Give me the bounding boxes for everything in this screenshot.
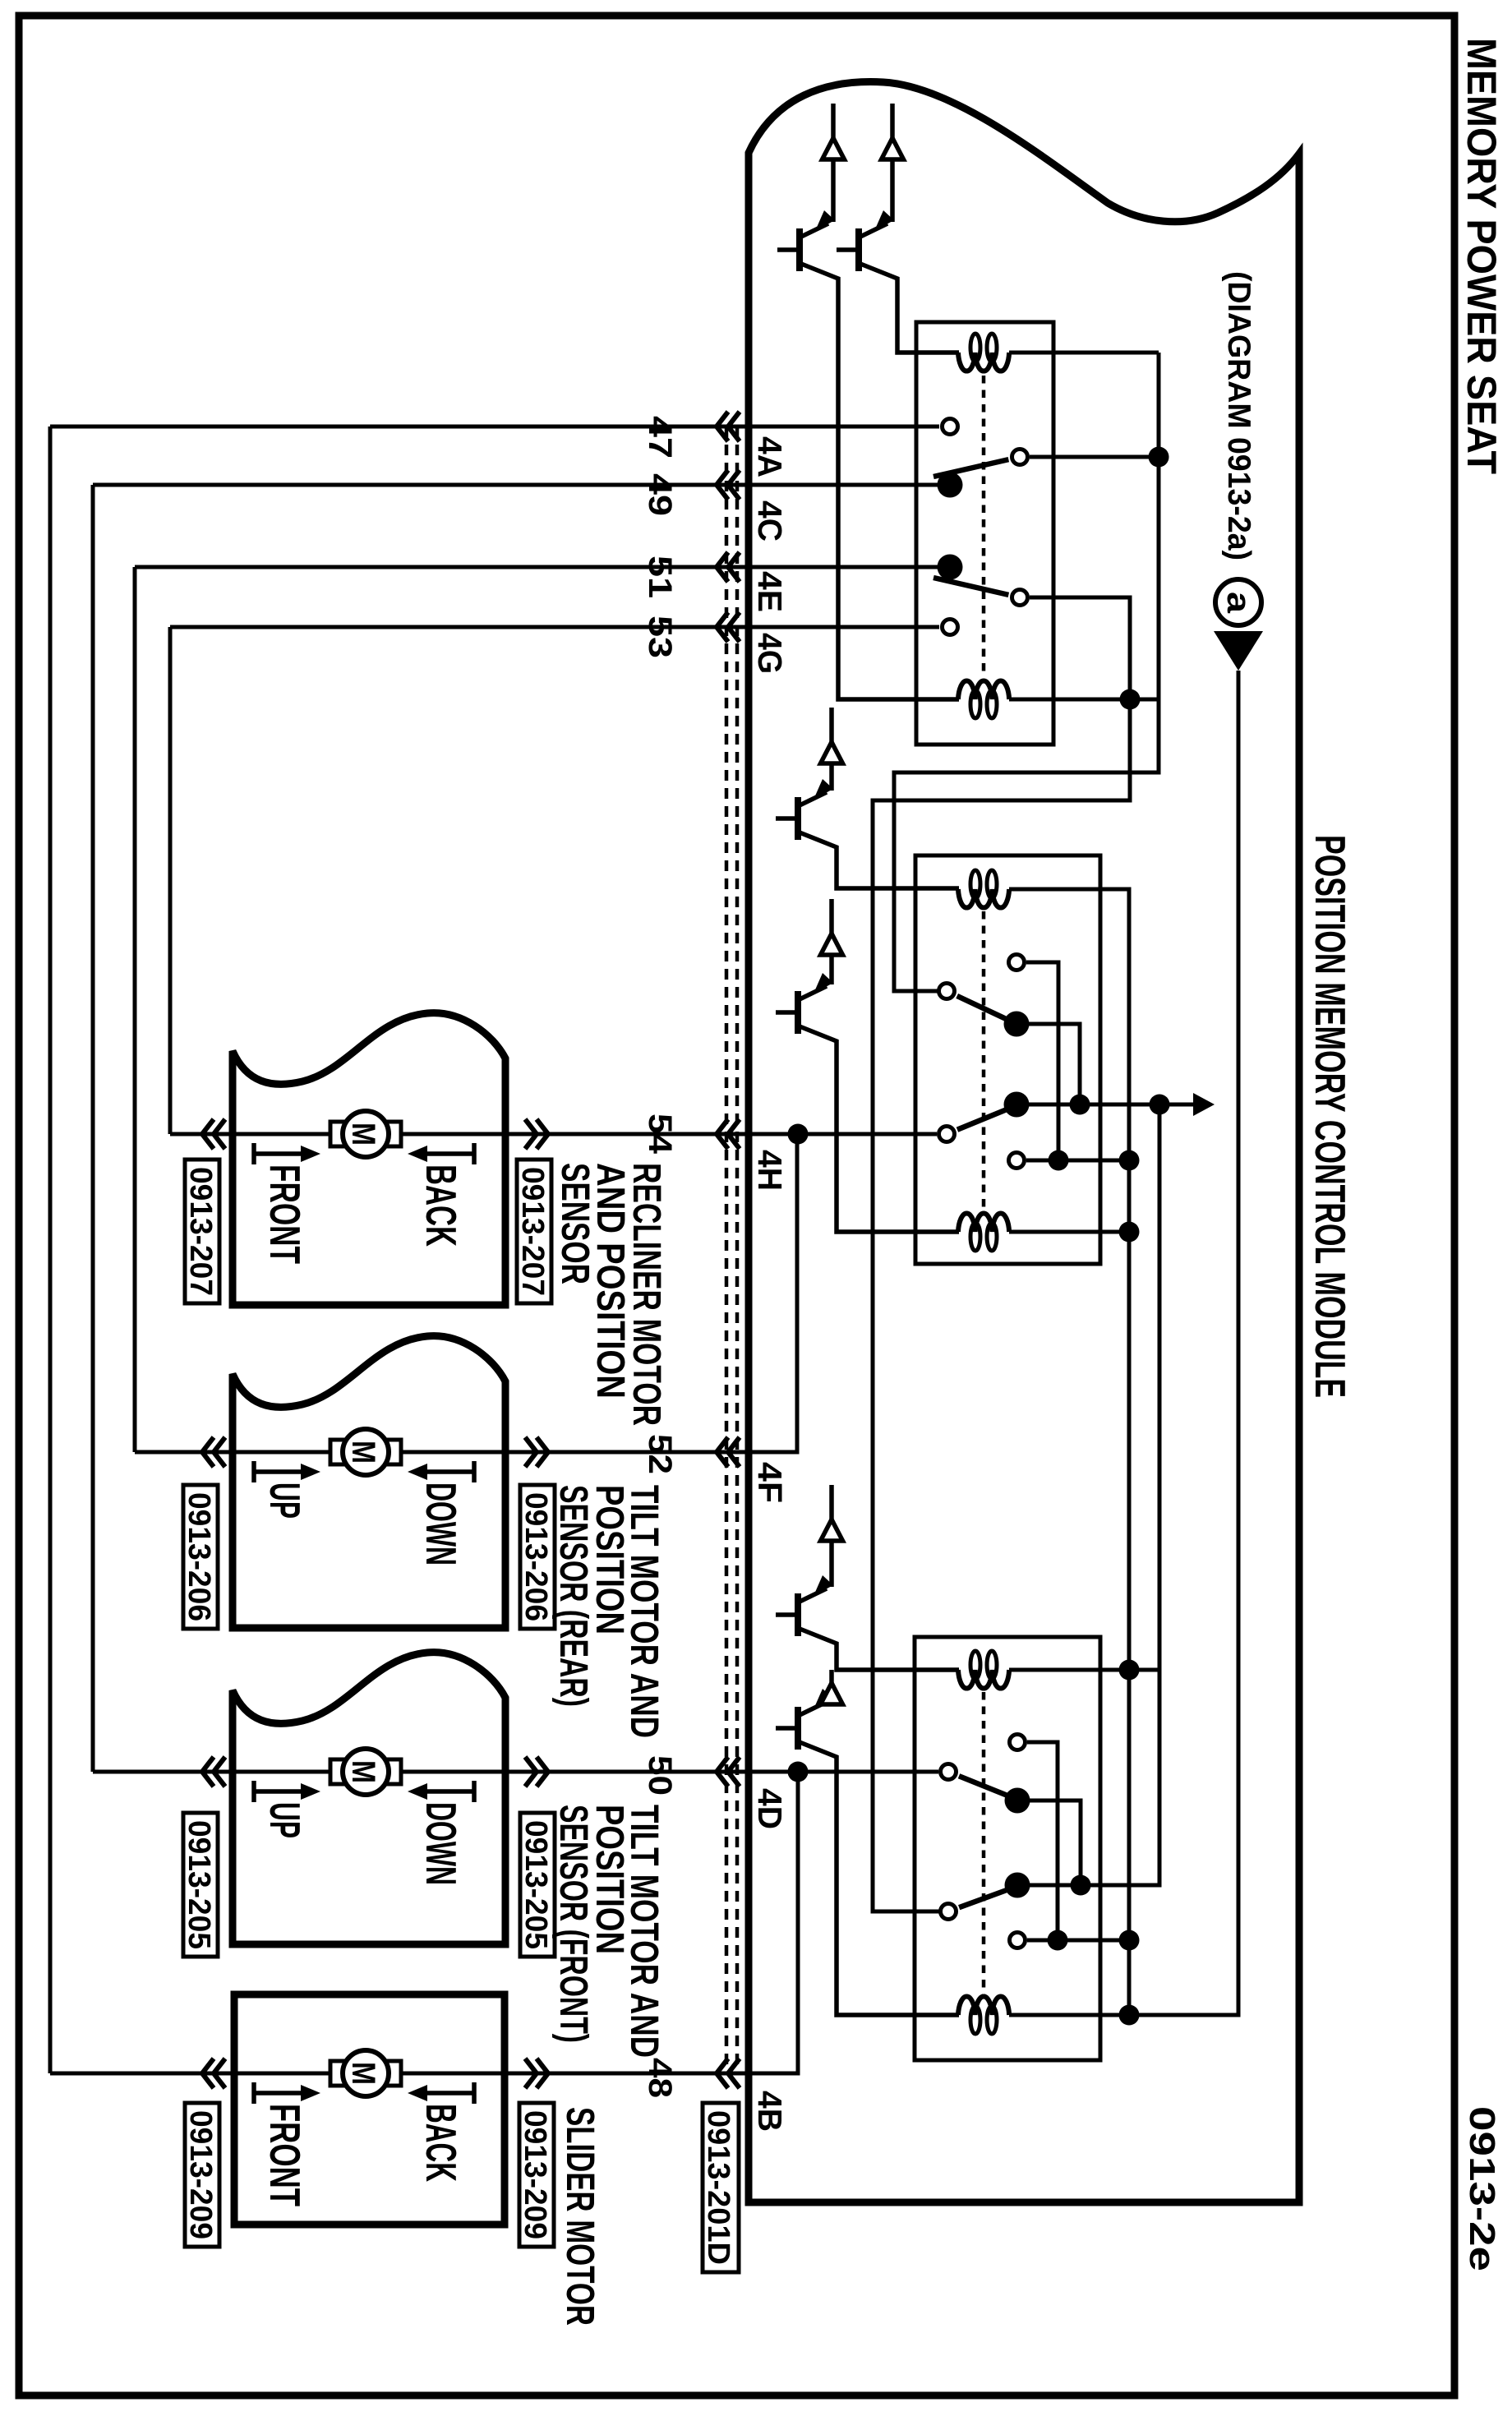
inline connector chevron wire 47 at module <box>717 412 740 441</box>
wire K3 NC1 down to node row <box>1027 1800 1081 1885</box>
relay K1 upper coil L1a <box>958 353 1009 371</box>
connector bus dashed line 2 <box>735 426 740 2073</box>
wire K2/K3 node vertical <box>1029 1104 1159 1885</box>
wire 51 row <box>135 565 939 569</box>
svg-text:4C: 4C <box>751 500 789 542</box>
wire 53 row <box>170 625 939 629</box>
svg-text:UP: UP <box>260 1802 308 1838</box>
svg-text:4F: 4F <box>751 1462 789 1503</box>
svg-text:0913-2e: 0913-2e <box>1462 2106 1502 2271</box>
motor M3 tilt-front box (wavy) <box>233 1653 505 1944</box>
svg-text:M: M <box>345 1441 381 1464</box>
junction dot wire 50 / wire 48 <box>788 1762 809 1782</box>
wire 47 row <box>50 425 939 429</box>
wire 49 row <box>93 483 939 487</box>
transistor Q6 (drives relay K3 lower coil) <box>776 1726 795 1731</box>
junction dot NO2 row / long vertical <box>1119 1150 1140 1171</box>
svg-text:49: 49 <box>642 473 678 516</box>
relay K2 lower coil L2b <box>958 1213 1009 1232</box>
relay K3 contact NO1 (open) <box>1010 1735 1026 1750</box>
svg-text:0913-209: 0913-209 <box>518 2110 552 2239</box>
wire K3 NO2 row <box>1027 1939 1129 1943</box>
svg-text:SLIDER MOTOR: SLIDER MOTOR <box>558 2107 602 2326</box>
wire K3 NO1 down to NO2 row <box>1027 1742 1058 1940</box>
relay K1 pole 49 (filled) <box>938 473 963 498</box>
continuation circle a <box>1215 579 1261 625</box>
wire relay K1 output A to node <box>1030 455 1159 459</box>
svg-text:0913-205: 0913-205 <box>519 1820 553 1949</box>
junction dot K3 NO2 / bus <box>1119 1930 1140 1951</box>
transistor Q5 (drives relay K3 upper coil) <box>776 1612 795 1617</box>
connector bus dashed line 1 <box>725 426 729 2073</box>
relay K3 upper coil right lead <box>1009 1668 1159 1672</box>
wire 51 to tilt rear motor (vertical) <box>133 567 137 1452</box>
svg-text:0913-207: 0913-207 <box>515 1167 550 1296</box>
svg-text:UP: UP <box>260 1482 308 1519</box>
svg-text:4B: 4B <box>751 2091 789 2132</box>
svg-text:47: 47 <box>642 416 678 459</box>
wire 48 row (slider motor to module pin 4B) <box>50 1772 798 2073</box>
sensor tag 0913-205 right <box>520 1813 555 1957</box>
junction dot arrow row / vertical to K3 node <box>1150 1095 1170 1115</box>
relay K3 box <box>915 1637 1100 2060</box>
svg-text:MEMORY POWER SEAT: MEMORY POWER SEAT <box>1459 38 1505 474</box>
svg-text:M: M <box>345 2062 381 2085</box>
relay K2 contact NO2 (open) <box>1009 1153 1025 1169</box>
relay K2 pole B (open) <box>939 1127 955 1142</box>
svg-text:53: 53 <box>642 616 678 658</box>
svg-text:50: 50 <box>642 1755 678 1796</box>
wire K2 node row with arrow <box>1029 1103 1193 1107</box>
svg-text:4D: 4D <box>751 1788 789 1829</box>
module POSITION MEMORY CONTROL MODULE outline (wavy partial box) <box>749 82 1299 2202</box>
motor M1 direction arrows FRONT/BACK <box>251 1143 256 1164</box>
continuation solid triangle <box>1214 631 1263 671</box>
wire NO2 row <box>1026 1159 1129 1163</box>
svg-text:0913-209: 0913-209 <box>183 2110 218 2239</box>
junction dot wire 54 / wire 52 <box>788 1124 809 1145</box>
sensor tag 0913-205 left <box>183 1813 218 1957</box>
junction dot K3 upper coil / bus <box>1119 1660 1140 1681</box>
relay K1 contact 47 (open) <box>943 419 958 435</box>
relay K1 lower coil right lead <box>1009 698 1159 702</box>
wire K1 coil feed vertical then left to relay K2 pole A <box>894 353 1159 991</box>
motor M3 chevron right <box>525 1757 548 1787</box>
svg-text:0913-205: 0913-205 <box>182 1820 216 1949</box>
junction dot K3 NC1 / node row <box>1071 1875 1091 1896</box>
sensor tag 0913-209 right <box>519 2103 554 2247</box>
relay K3 mechanical link (dashed) <box>982 1692 986 1995</box>
relay K3 lever A <box>959 1776 1016 1799</box>
svg-text:52: 52 <box>642 1434 678 1474</box>
svg-text:SENSOR (REAR): SENSOR (REAR) <box>551 1485 595 1707</box>
motor M4 slider box <box>234 1994 505 2225</box>
svg-text:4H: 4H <box>751 1150 789 1191</box>
svg-text:a: a <box>1220 592 1256 614</box>
svg-text:BACK: BACK <box>417 2104 464 2182</box>
relay K2 lever B <box>957 1106 1015 1130</box>
motor M1 chevron left <box>202 1119 225 1149</box>
wire K2 lower coil right lead <box>1009 1230 1129 1234</box>
junction dot K1 lower coil / output B route <box>1120 689 1141 710</box>
svg-text:(DIAGRAM 0913-2a): (DIAGRAM 0913-2a) <box>1221 271 1256 560</box>
wire continuation line down to K3 lower coil <box>1009 671 1238 2015</box>
relay K3 pole A (open) <box>941 1764 957 1780</box>
inline connector chevron wire 53 at module <box>717 612 740 642</box>
sensor tag 0913-207 right <box>517 1160 551 1303</box>
wire 49 to tilt front motor (vertical) <box>91 485 95 1772</box>
svg-text:DOWN: DOWN <box>417 1802 464 1885</box>
inline connector chevron wire 49 at module <box>717 470 740 500</box>
wire 54 row (recliner motor to module pin 4H) <box>170 1132 937 1137</box>
junction dot K2 lower coil lead / bus <box>1119 1222 1140 1243</box>
svg-text:SENSOR: SENSOR <box>553 1163 597 1284</box>
wire 47 to slider motor (vertical) <box>48 426 53 2073</box>
sensor tag 0913-206 left <box>183 1485 218 1629</box>
svg-text:0913-207: 0913-207 <box>183 1167 218 1296</box>
svg-text:SENSOR (FRONT): SENSOR (FRONT) <box>551 1805 595 2043</box>
svg-text:51: 51 <box>642 556 678 598</box>
junction dot K3 lower coil / bus end <box>1119 2005 1140 2026</box>
relay K3 contact NC1 (filled) <box>1005 1788 1030 1814</box>
svg-text:4G: 4G <box>751 633 789 674</box>
motor M1 recliner box (wavy) <box>233 1013 505 1305</box>
relay K2 contact NO1 (open) <box>1009 955 1025 971</box>
svg-text:54: 54 <box>642 1113 678 1155</box>
motor M2 chevron left <box>202 1437 225 1467</box>
relay K2 contact NC1 (filled) <box>1004 1012 1030 1037</box>
relay K2 lever A <box>957 996 1015 1023</box>
svg-text:0913-201D: 0913-201D <box>701 2110 735 2265</box>
wire K2 coil bus vertical (top coil lead down to K3 lower coil) <box>1009 889 1129 2015</box>
motor M2 direction arrows UP/DOWN <box>251 1461 256 1482</box>
relay K3 lever B <box>959 1887 1016 1907</box>
relay K2 upper coil L2a <box>958 889 1009 908</box>
inline connector chevron wire 50 at module <box>717 1757 740 1787</box>
motor M4 symbol <box>330 2061 344 2086</box>
relay K2 contact node (filled) <box>1004 1092 1030 1118</box>
transistor Q3 (drives relay K2 upper coil) <box>776 816 795 821</box>
relay K1 lower coil L1b <box>958 680 1009 699</box>
inline connector chevron wire 51 at module <box>717 552 740 582</box>
svg-text:FRONT: FRONT <box>260 2104 308 2206</box>
svg-text:4E: 4E <box>751 571 789 612</box>
junction dot NO1/NO2 row <box>1049 1150 1069 1171</box>
relay K3 pole B (open) <box>941 1904 957 1920</box>
motor M2 chevron right <box>525 1437 548 1467</box>
wire K2 NC1 down to arrow row <box>1026 1024 1080 1104</box>
inline connector chevron wire 52 at module <box>717 1437 740 1467</box>
transistor Q4 (drives relay K2 lower coil) <box>776 1010 795 1015</box>
motor M3 chevron left <box>202 1757 225 1787</box>
svg-text:FRONT: FRONT <box>260 1164 308 1264</box>
node dot K1 output A / coil feed <box>1149 447 1169 468</box>
svg-text:DOWN: DOWN <box>417 1482 464 1565</box>
wire 50 row (tilt front motor to module pin 4D) <box>93 1770 938 1774</box>
svg-text:POSITION MEMORY CONTROL MODULE: POSITION MEMORY CONTROL MODULE <box>1306 835 1353 1398</box>
junction dot K3 NO1 / NO2 row <box>1048 1930 1068 1951</box>
inline connector chevron wire 54 at module <box>717 1119 740 1149</box>
relay K1 contact 53 (open) <box>943 620 958 635</box>
relay K2 mechanical link (dashed) <box>982 911 986 1211</box>
svg-text:4A: 4A <box>751 436 789 477</box>
arrow head K2 node row <box>1193 1093 1215 1116</box>
relay K1 output contact B (open) <box>1012 590 1028 606</box>
motor M2 tilt-rear box (wavy) <box>233 1336 505 1628</box>
wire K2 NO1 down to NO2 row <box>1026 962 1058 1160</box>
relay K1 output contact A (open) <box>1012 450 1028 465</box>
motor M3 direction arrows UP/DOWN <box>251 1781 256 1802</box>
relay K3 contact NO2 (open) <box>1010 1933 1026 1948</box>
svg-text:M: M <box>345 1760 381 1783</box>
motor M4 direction arrows FRONT/BACK <box>251 2082 256 2104</box>
relay K1 lever 49-output <box>933 459 1008 477</box>
sensor tag 0913-207 left <box>185 1160 219 1303</box>
transistor Q2 (drives relay K1 upper coil) <box>837 247 856 252</box>
motor M4 chevron left <box>202 2059 225 2088</box>
motor M1 chevron right <box>525 1119 548 1149</box>
wire K1 output B to relay K3 pole B (long route) <box>873 597 1130 1911</box>
relay K1 box <box>916 322 1053 745</box>
junction dot NC1/arrow row <box>1070 1095 1090 1115</box>
motor M4 chevron right <box>525 2059 548 2088</box>
svg-text:0913-206: 0913-206 <box>182 1492 216 1621</box>
svg-text:BACK: BACK <box>417 1164 464 1247</box>
relay K1 lever 51-output <box>933 578 1008 595</box>
svg-text:0913-206: 0913-206 <box>519 1492 553 1621</box>
motor M1 symbol <box>330 1122 344 1146</box>
connector tag 0913-201D <box>703 2103 739 2272</box>
sensor tag 0913-206 right <box>520 1485 555 1629</box>
motor M3 symbol <box>330 1759 344 1784</box>
relay K3 upper coil L3a <box>958 1670 1009 1689</box>
wire 52 row (tilt rear motor to module pin 4F) <box>135 1134 797 1452</box>
sensor tag 0913-209 left <box>185 2103 219 2247</box>
relay K2 pole A (open) <box>939 984 955 999</box>
inline connector chevron wire 48 at module <box>717 2059 740 2088</box>
relay K3 contact node (filled) <box>1005 1873 1030 1898</box>
relay K1 pole 51 (filled) <box>938 555 963 580</box>
wire 53 to recliner motor (vertical) <box>168 627 173 1134</box>
transistor Q1 (drives relay K1 lower coil) <box>777 247 797 252</box>
relay K1 mechanical link (dashed) <box>982 376 986 675</box>
svg-text:M: M <box>345 1123 381 1146</box>
motor M2 symbol <box>330 1440 344 1464</box>
relay K2 box <box>915 855 1100 1264</box>
svg-text:48: 48 <box>642 2058 678 2098</box>
relay K3 lower coil L3b <box>958 1996 1009 2015</box>
relay K1 upper coil right lead <box>1009 351 1159 355</box>
